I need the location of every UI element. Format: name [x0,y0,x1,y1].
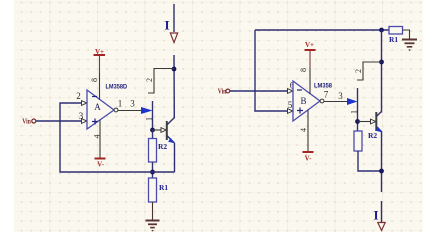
svg-text:1: 1 [118,99,123,109]
pin 4 wire (V- supply, right) [307,110,309,152]
node junction at (381.5,30) [379,28,384,33]
svg-text:3: 3 [130,99,135,109]
op-amp U1A LM358D [87,90,118,129]
port I (current arrow, bottom right) [373,201,385,231]
pin label 3 (Q1 base net) [130,99,135,109]
ground (right top) [402,40,417,51]
ground (left) [146,221,160,231]
power V- (right) [303,152,314,162]
svg-text:R1: R1 [159,183,168,192]
pin label 4 (rotated) [299,128,308,132]
wire Vin to op-amp pin 6 [230,89,293,94]
wire to Q2 base [358,119,376,124]
signal arrow on output wire [141,107,153,114]
wire base node vertical [152,101,154,130]
svg-text:V+: V+ [95,48,104,56]
svg-text:R2: R2 [158,142,167,151]
wire feedback vertical (right) [254,30,256,112]
resistor R1 [149,178,169,202]
svg-text:4: 4 [299,128,308,132]
label LM358 [314,82,332,89]
svg-text:I: I [373,208,378,223]
node junction at (357.5,121.5) [355,119,360,124]
pin label 2 (Q1 collector, rotated) [145,78,154,82]
wire to Q1 base [153,128,167,133]
wire R2 bottom to emitter node [358,151,382,171]
pin label 2 (Q2 collector, rotated) [354,69,363,73]
power V+ (right) [305,41,316,50]
pin label 1 (op-amp output) [118,99,123,109]
node junction at (152.5,172) [150,170,155,175]
wire collector node vertical (right) [381,30,383,113]
transistor Q2 [376,112,383,133]
wire pin2 step of Q1 [148,69,174,94]
wire feedback bottom horizontal [60,171,175,173]
wire R1 to ground [152,202,154,220]
svg-text:LM358D: LM358D [106,83,128,90]
wire pin2 step of Q2 [357,62,382,80]
svg-text:2: 2 [76,91,81,101]
resistor R1 (right top) [389,27,403,45]
wire base node to R2 [152,130,154,139]
port Vin (left) [22,117,36,126]
wire base node vertical (right) [357,88,359,131]
port Vin (right) [218,87,230,96]
svg-text:B: B [300,96,306,106]
node junction at (174,69) [172,67,177,72]
svg-text:A: A [94,102,101,112]
svg-text:V-: V- [97,161,105,169]
svg-text:3: 3 [338,91,343,101]
power V+ (left) [94,48,106,56]
signal arrow on output wire (right) [347,98,358,105]
port I (current arrow, top left circuit) [164,4,177,43]
power V- (left) [95,159,106,169]
wire R2 bottom [152,162,154,178]
svg-text:V-: V- [305,154,313,162]
svg-text:1: 1 [350,110,359,114]
wire Vin to op-amp pin 3 [36,119,87,124]
svg-text:2: 2 [354,69,363,73]
pin 8 wire (V+ supply) [99,55,101,100]
wire op-amp output to base node [118,110,141,112]
op-amp U1B LM358 [293,81,324,121]
pin label 7 (op-amp output) [324,90,329,100]
resistor R2 [149,139,168,163]
svg-text:4: 4 [93,135,102,139]
wire top feedback horizontal [255,29,389,31]
pin label 3 (op-amp non-inverting) [79,111,84,121]
wire Q1 emitter down [174,143,176,172]
pin label 8 (rotated) [90,78,99,82]
pin 8 wire (V+ supply, right) [309,50,311,94]
node junction at (381.5,62) [379,60,384,65]
pin label 3 (Q2 base net) [338,91,343,101]
svg-text:8: 8 [90,78,99,82]
pin label 5 [288,100,293,110]
pin label 4 (rotated) [93,135,102,139]
svg-text:7: 7 [324,90,329,100]
wire collector node vertical [173,55,175,118]
svg-text:R2: R2 [368,131,377,140]
label LM358D [106,83,128,90]
svg-text:2: 2 [145,78,154,82]
wire op-amp B output [324,101,348,103]
svg-text:Vin: Vin [22,117,31,126]
wire Q2 emitter down [381,132,383,192]
wire feedback left vertical [59,103,61,173]
svg-text:R1: R1 [389,35,398,44]
pin label 1 (Q1 base, rotated) [145,117,154,121]
wire feedback to op-amp pin 5 [254,109,292,114]
transistor Q1 [167,118,175,144]
svg-text:3: 3 [79,111,84,121]
pin label 8 (rotated) [299,68,308,72]
pin label 1 (Q2 base, rotated) [350,110,359,114]
svg-text:8: 8 [299,68,308,72]
svg-text:1: 1 [145,117,154,121]
pin label 6 [290,81,295,91]
svg-text:I: I [164,18,169,33]
svg-text:V+: V+ [305,41,314,49]
node junction at (381.5,171) [379,169,384,174]
node junction at base (152.5,130) [150,128,155,133]
svg-text:5: 5 [288,100,293,110]
wire to op-amp pin 2 [59,101,86,106]
pin label 2 (op-amp inverting) [76,91,81,101]
resistor R2 (right) [354,131,377,151]
svg-text:LM358: LM358 [314,82,332,89]
pin 4 wire (V- supply) [99,120,101,159]
wire R1 to ground (right top) [403,30,410,39]
